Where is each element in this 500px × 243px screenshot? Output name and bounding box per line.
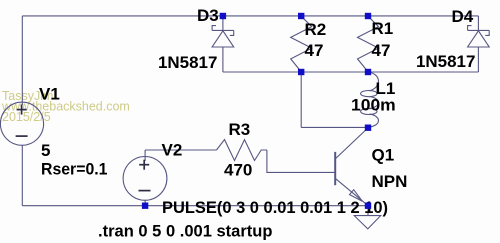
voltage source V1 xyxy=(0,102,43,145)
junction node V2 bottom xyxy=(142,203,148,209)
wire R3 to Q1 base xyxy=(267,150,335,172)
V1 minus sign xyxy=(16,135,28,137)
wire V2 top stub xyxy=(144,150,146,161)
svg-text:V1: V1 xyxy=(39,85,60,104)
svg-text:R2: R2 xyxy=(305,20,327,39)
wire bottom rail xyxy=(22,205,368,207)
svg-text:PULSE(0 3 0 0.01 0.01 1 2 10): PULSE(0 3 0 0.01 0.01 1 2 10) xyxy=(162,198,388,217)
wire left vertical to V1 xyxy=(21,16,23,105)
wire emitter node to ground xyxy=(367,206,369,216)
wire V2 bottom stub xyxy=(144,200,146,206)
svg-text:R3: R3 xyxy=(229,120,251,139)
wire D4 anode to mid rail xyxy=(477,47,479,72)
resistor R1 xyxy=(358,16,379,72)
svg-text:1N5817: 1N5817 xyxy=(158,53,217,72)
wire lower link to L1 bottom xyxy=(301,126,368,128)
svg-text:1N5817: 1N5817 xyxy=(416,52,475,71)
transistor Q1 xyxy=(335,128,368,205)
junction node R2 bottom xyxy=(298,69,304,75)
wire mid rail xyxy=(223,71,479,73)
svg-text:47: 47 xyxy=(372,41,391,60)
resistor R3 xyxy=(217,140,267,161)
svg-text:Q1: Q1 xyxy=(372,146,395,165)
wire D3 anode to mid rail xyxy=(222,47,224,72)
inductor L1 xyxy=(361,72,379,127)
resistor R2 xyxy=(291,16,312,72)
voltage source V2 xyxy=(123,157,167,201)
svg-text:R1: R1 xyxy=(372,19,394,38)
svg-text:100m: 100m xyxy=(351,96,396,115)
wire R2 bottom leg down xyxy=(300,72,302,127)
svg-text:470: 470 xyxy=(224,161,252,180)
V1 plus sign xyxy=(16,105,151,191)
svg-text:D3: D3 xyxy=(197,6,219,25)
junction node R1 top xyxy=(365,13,371,19)
junction node emitter / ground xyxy=(365,203,371,209)
V2 minus sign xyxy=(139,190,151,192)
svg-text:Rser=0.1: Rser=0.1 xyxy=(41,159,108,178)
ground xyxy=(354,216,381,229)
svg-text:D4: D4 xyxy=(452,7,474,26)
svg-text:.tran 0 5 0 .001 startup: .tran 0 5 0 .001 startup xyxy=(98,222,273,241)
wire D4 cathode stub xyxy=(477,16,479,31)
wire D3 cathode stub xyxy=(222,16,224,31)
junction node R1 bottom / L1 top xyxy=(365,69,371,75)
junction node R2 top xyxy=(298,13,304,19)
junction node D3 top xyxy=(220,13,226,19)
wire V1 bottom to bottom rail xyxy=(21,145,23,206)
wire V2 top to R3 xyxy=(145,149,216,151)
diode D4 xyxy=(468,26,490,47)
V2 plus sign xyxy=(139,164,149,166)
svg-text:5: 5 xyxy=(41,141,50,160)
svg-text:47: 47 xyxy=(305,41,324,60)
svg-text:NPN: NPN xyxy=(372,172,408,191)
diode D3 xyxy=(212,26,234,47)
svg-text:V2: V2 xyxy=(162,141,183,160)
junction node L1 bottom / collector xyxy=(365,125,371,131)
wire top rail xyxy=(22,15,478,17)
